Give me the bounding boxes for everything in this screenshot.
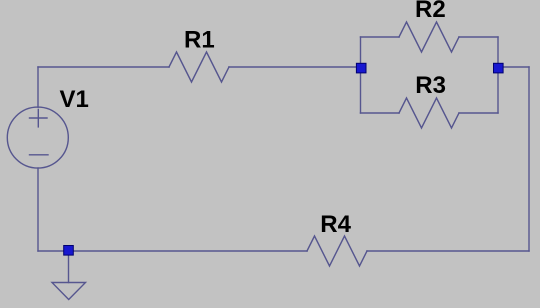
- svg-text:R1: R1: [184, 27, 215, 54]
- svg-text:V1: V1: [60, 86, 89, 113]
- svg-text:R2: R2: [415, 0, 446, 23]
- svg-text:R3: R3: [415, 72, 446, 99]
- svg-text:R4: R4: [320, 211, 351, 238]
